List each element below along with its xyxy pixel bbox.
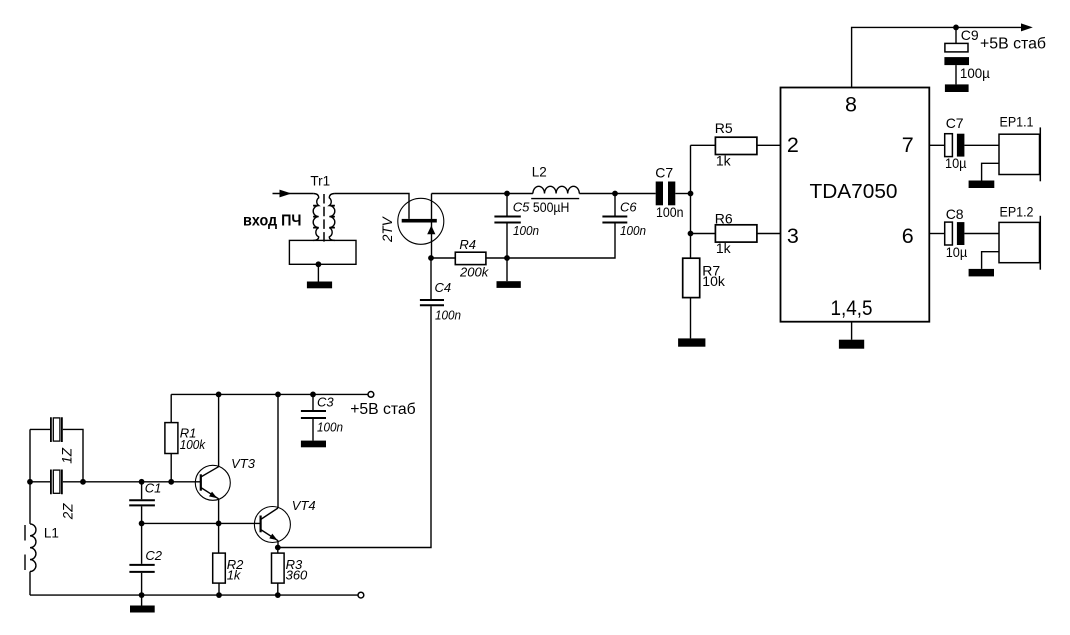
svg-text:+5В стаб: +5В стаб bbox=[980, 36, 1046, 53]
ground under C9 bbox=[945, 84, 969, 92]
svg-text:L1: L1 bbox=[44, 526, 59, 541]
ground under Tr1 bbox=[317, 264, 319, 281]
resistor R5 bbox=[691, 144, 781, 146]
svg-text:C7: C7 bbox=[946, 115, 964, 131]
wire C4 to VT4 emitter node bbox=[278, 306, 431, 547]
svg-text:C3: C3 bbox=[317, 394, 334, 409]
earphone EP1.1 bbox=[999, 134, 1040, 174]
capacitor C4 bbox=[430, 258, 432, 299]
wire R4 node to C6 bottom bbox=[507, 224, 615, 259]
junction dot C5 top bbox=[504, 191, 510, 197]
junction dot C2 bottom bbox=[139, 592, 145, 598]
resistor R4 bbox=[431, 257, 507, 259]
crystal Z1 bbox=[30, 429, 83, 481]
transistor VT3 bbox=[195, 465, 230, 500]
junction dot C2 top bbox=[139, 521, 145, 527]
junction dot C3 rail bbox=[310, 392, 316, 398]
svg-text:10k: 10k bbox=[702, 273, 726, 289]
junction dot VT4 collector rail bbox=[275, 392, 281, 398]
svg-text:100k: 100k bbox=[180, 437, 207, 452]
svg-text:Tr1: Tr1 bbox=[310, 174, 330, 189]
svg-text:C8: C8 bbox=[946, 206, 964, 222]
L2 core line bbox=[531, 198, 579, 200]
svg-text:100n: 100n bbox=[620, 223, 646, 238]
resistor R3 bbox=[277, 548, 279, 596]
junction dot VT3 collector rail bbox=[216, 392, 222, 398]
junction dot R2 bottom bbox=[216, 592, 222, 598]
capacitor C5 bbox=[506, 194, 508, 259]
wire pin 7 bbox=[929, 144, 944, 146]
VT4 collector riser bbox=[277, 394, 279, 508]
Tr1 primary winding ticks bbox=[313, 206, 317, 228]
transistor VT4 bbox=[254, 507, 290, 543]
resistor R7 bbox=[690, 234, 692, 259]
wire pin 6 bbox=[929, 233, 944, 235]
transformer Tr1 secondary winding bbox=[329, 194, 335, 241]
junction dot C7 node bbox=[688, 191, 694, 197]
junction dot R1 bottom bbox=[168, 479, 174, 485]
resistor R2 bbox=[218, 523, 220, 595]
main wire Z to VT3 base bbox=[30, 481, 201, 483]
svg-text:1,4,5: 1,4,5 bbox=[831, 296, 873, 320]
svg-text:VT3: VT3 bbox=[231, 456, 256, 471]
wire C7 to node bbox=[675, 193, 690, 195]
ground bottom wire bbox=[141, 595, 143, 605]
svg-text:1k: 1k bbox=[716, 153, 732, 169]
capacitor C7 output electrolytic bbox=[945, 134, 953, 157]
VT2 drain-source lead bbox=[431, 194, 433, 258]
svg-text:1Z: 1Z bbox=[60, 447, 75, 464]
svg-text:+5В стаб: +5В стаб bbox=[350, 401, 416, 418]
transformer Tr1 core bbox=[323, 194, 325, 242]
svg-text:EP1.2: EP1.2 bbox=[1000, 204, 1034, 220]
junction dot R4 right node bbox=[504, 255, 510, 261]
svg-text:1k: 1k bbox=[716, 240, 732, 256]
svg-text:C4: C4 bbox=[435, 280, 452, 295]
svg-text:100n: 100n bbox=[513, 223, 539, 238]
svg-text:C1: C1 bbox=[145, 481, 162, 496]
svg-text:100n: 100n bbox=[656, 204, 684, 220]
svg-text:R4: R4 bbox=[459, 237, 476, 252]
svg-text:200k: 200k bbox=[459, 265, 490, 280]
svg-text:R5: R5 bbox=[715, 120, 733, 136]
EP1.2 ground tap bbox=[982, 252, 999, 269]
wire node riser R5/R6 bbox=[690, 145, 692, 233]
svg-text:8: 8 bbox=[845, 92, 857, 116]
Tr1 return rectangle bbox=[289, 240, 356, 264]
junction dot C1 top bbox=[139, 479, 145, 485]
inductor L1 bbox=[30, 524, 36, 572]
capacitor C1 bbox=[141, 482, 143, 524]
svg-text:C6: C6 bbox=[620, 200, 637, 215]
resistor R1 bbox=[170, 394, 172, 481]
wire L2 to C7 bbox=[579, 193, 655, 195]
wire pin 8 to +5V rail bbox=[852, 27, 1021, 87]
capacitor C2 bbox=[141, 523, 143, 595]
VT3 collector riser bbox=[218, 394, 220, 466]
junction dot C9 top bbox=[953, 25, 959, 31]
svg-text:C2: C2 bbox=[145, 548, 162, 563]
junction dot R6 node bbox=[688, 231, 694, 237]
svg-text:100µ: 100µ bbox=[960, 65, 990, 81]
+5V rail arrow bbox=[1021, 23, 1033, 31]
EP1.1 ground tap bbox=[982, 163, 999, 180]
junction dot Z right wire bbox=[80, 479, 86, 485]
svg-text:TDA7050: TDA7050 bbox=[810, 180, 898, 203]
svg-text:1k: 1k bbox=[227, 567, 242, 582]
svg-text:C7: C7 bbox=[655, 165, 673, 181]
svg-text:10µ: 10µ bbox=[945, 155, 967, 171]
capacitor C8 output electrolytic bbox=[945, 222, 953, 245]
VT2 arrow bbox=[427, 226, 435, 235]
IC U1 TDA7050 box bbox=[781, 88, 930, 322]
svg-text:L2: L2 bbox=[532, 165, 547, 180]
junction dot C6 top bbox=[612, 191, 618, 197]
input arrow bbox=[280, 190, 292, 198]
svg-text:500µH: 500µH bbox=[533, 200, 570, 215]
L1 core marks bbox=[24, 525, 26, 570]
svg-text:100n: 100n bbox=[317, 420, 343, 435]
ground under IC bbox=[839, 340, 864, 349]
capacitor C7 input coupling bbox=[656, 182, 663, 206]
crystal Z2 bbox=[51, 470, 62, 495]
terminal circle bottom bbox=[358, 592, 364, 598]
junction dot VT3 emitter node bbox=[216, 521, 222, 527]
+5V rail bottom section bbox=[171, 393, 368, 395]
wire Tr1 secondary to VT2 gate bbox=[335, 194, 409, 219]
svg-text:100n: 100n bbox=[435, 308, 461, 323]
transistor VT2 circle bbox=[398, 198, 444, 244]
resistor R6 bbox=[691, 233, 781, 235]
ground under R7 bbox=[678, 338, 705, 346]
svg-text:7: 7 bbox=[902, 133, 914, 157]
junction dot Tr1 ground node bbox=[316, 261, 322, 267]
svg-text:вход ПЧ: вход ПЧ bbox=[243, 213, 302, 230]
wire pins 1,4,5 to ground bbox=[851, 322, 853, 340]
capacitor C6 bbox=[614, 194, 616, 216]
junction dot R3 bottom bbox=[275, 592, 281, 598]
svg-text:10µ: 10µ bbox=[946, 244, 968, 260]
svg-text:C5: C5 bbox=[513, 200, 530, 215]
svg-text:2Z: 2Z bbox=[61, 503, 76, 521]
Tr1 secondary winding ticks bbox=[331, 206, 335, 228]
svg-text:2: 2 bbox=[787, 133, 799, 157]
earphone EP1.2 bbox=[999, 222, 1040, 262]
svg-text:3: 3 bbox=[787, 224, 799, 248]
junction dot VT4 emitter node bbox=[275, 545, 281, 551]
svg-text:EP1.1: EP1.1 bbox=[1000, 114, 1034, 130]
junction dot left wire bbox=[27, 479, 33, 485]
capacitor C9 electrolytic bbox=[955, 27, 957, 43]
svg-text:360: 360 bbox=[286, 567, 308, 582]
bottom wire bbox=[30, 594, 358, 596]
svg-text:6: 6 bbox=[902, 224, 914, 248]
svg-text:VT4: VT4 bbox=[292, 498, 316, 513]
wire input IF bbox=[273, 193, 314, 195]
wire top row VT2 to L2 bbox=[432, 193, 533, 195]
inductor L2 bbox=[533, 186, 579, 193]
capacitor C3 bbox=[312, 394, 314, 410]
svg-text:R6: R6 bbox=[715, 210, 733, 226]
ground under C3 bbox=[301, 441, 326, 448]
mid wire C1 to VT4 base bbox=[142, 522, 261, 524]
svg-text:C9: C9 bbox=[961, 27, 979, 43]
left vertical wire bbox=[29, 429, 31, 595]
ground under C5 node bbox=[506, 258, 508, 281]
VT2 channel bar bbox=[402, 219, 437, 223]
transformer Tr1 primary winding bbox=[313, 194, 319, 241]
junction dot VT2 source node bbox=[428, 255, 434, 261]
svg-text:2TV: 2TV bbox=[380, 215, 395, 243]
terminal circle +5V bbox=[368, 392, 374, 398]
